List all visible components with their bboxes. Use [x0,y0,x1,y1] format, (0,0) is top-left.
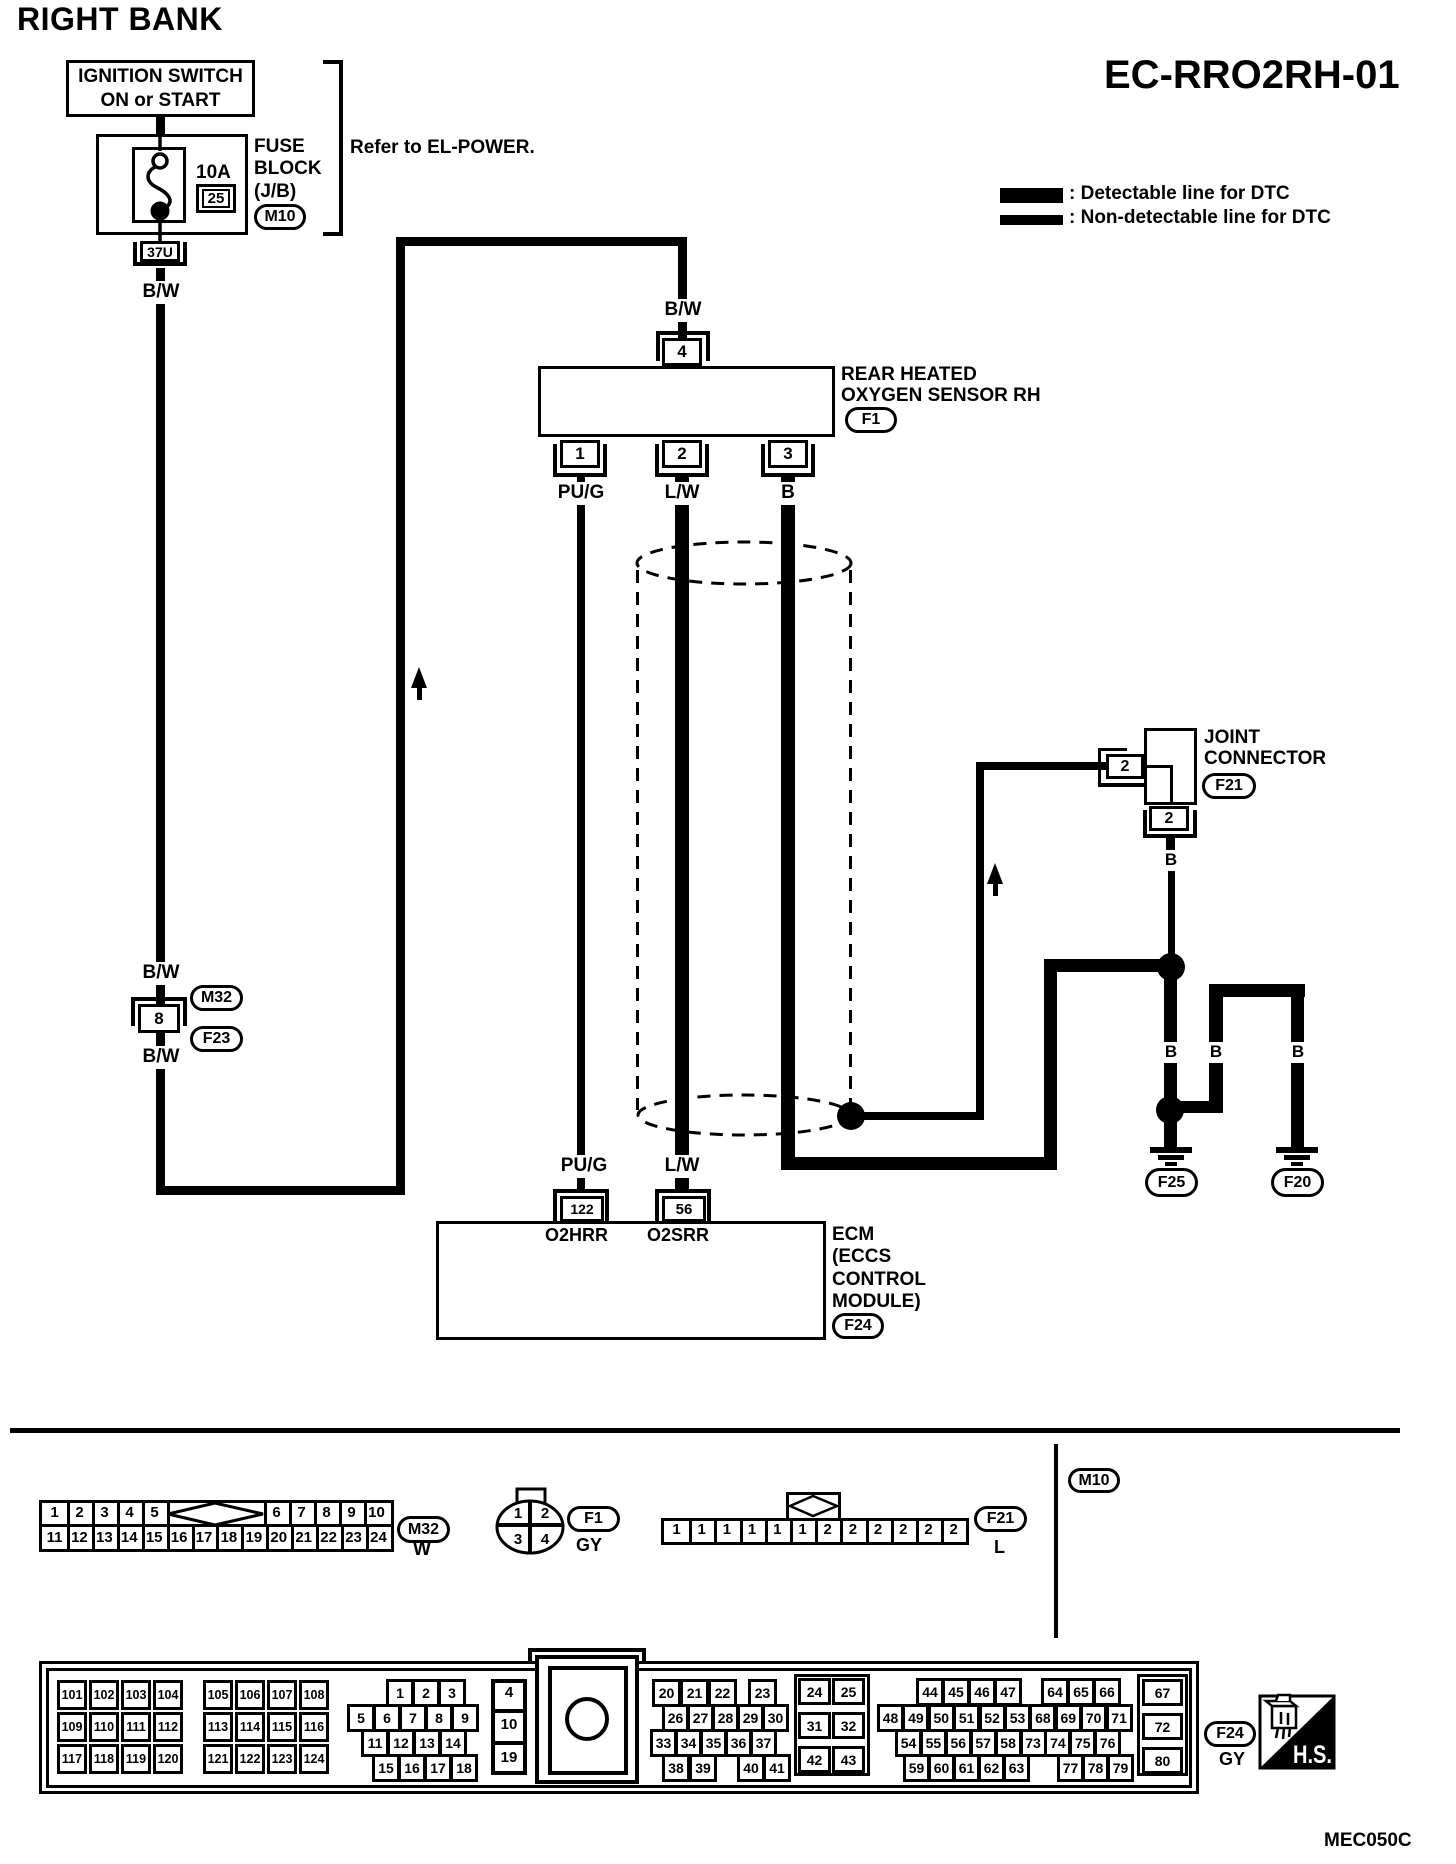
svg-text:H.S.: H.S. [1293,1741,1332,1769]
